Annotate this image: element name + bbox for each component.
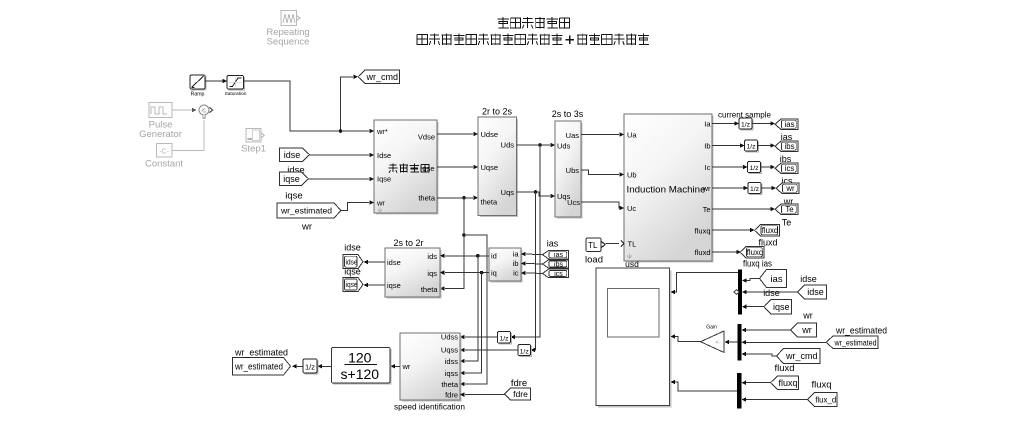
svg-text:Uds: Uds [557, 141, 571, 150]
wire machine Ia to unit delay [712, 123, 735, 125]
svg-text:ias: ias [770, 274, 782, 285]
block Saturation [229, 77, 245, 90]
svg-text:iqse: iqse [346, 280, 358, 289]
svg-text:wr_estimated: wr_estimated [835, 326, 887, 337]
svg-text:Uqse: Uqse [481, 163, 499, 172]
from tag flux_d (mux3) [808, 393, 838, 407]
wire Uqs to 2s-to-3s [517, 192, 551, 196]
svg-text:wr: wr [801, 325, 812, 335]
wire Constant to switch circle [173, 120, 205, 151]
wire theta to 2r-to-2s theta [437, 197, 473, 199]
svg-text:iqse: iqse [283, 174, 300, 184]
unit delay 1/z for wr [750, 184, 762, 194]
from tag iqse [280, 172, 309, 186]
svg-text:1/z: 1/z [746, 144, 756, 151]
from tag fluxq (mux3) [771, 376, 799, 390]
svg-text:flux_d: flux_d [815, 395, 836, 405]
wire transfer fcn to unit delay 1/z c [322, 365, 332, 367]
goto tag ibs [775, 141, 798, 152]
annotation title line1 (CJK) [498, 17, 571, 28]
unit delay 1/z c [305, 361, 318, 374]
block speed identification (mirrored) [402, 335, 461, 401]
svg-text:idse: idse [284, 150, 301, 160]
wire Vdse to Udse [437, 133, 473, 135]
svg-text:Uc: Uc [627, 204, 636, 213]
wire branch to wr_cmd tag [341, 77, 354, 131]
svg-text:Udse: Udse [481, 130, 499, 139]
svg-text:1/z: 1/z [499, 336, 509, 343]
svg-text:Uqs: Uqs [501, 188, 515, 197]
svg-text:iq: iq [491, 268, 497, 277]
wire wr to mux2 [746, 329, 791, 331]
mux 2 (wr wr_estimated wr_cmd) [738, 324, 742, 361]
wire unit delay to goto ics [761, 166, 772, 168]
scope usd (hidden) label [627, 254, 632, 259]
wire Uqs branch down to unit delay 1/z b [534, 192, 537, 350]
svg-text:ibs: ibs [554, 262, 563, 269]
svg-text:iqse: iqse [344, 267, 361, 277]
from tag ibs (mid) [543, 260, 569, 268]
svg-text:Uas: Uas [566, 131, 580, 140]
svg-text:wr: wr [402, 362, 411, 371]
svg-text:Ubs: Ubs [566, 166, 580, 175]
wire unit delay to goto wr_estimated [297, 365, 304, 367]
unit delay 1/z b (Uqss) [520, 346, 532, 356]
svg-text:ics: ics [554, 271, 563, 278]
svg-text:120: 120 [348, 349, 372, 365]
svg-text:Uqss: Uqss [441, 345, 458, 354]
from tag wr_estimated (input wr) [277, 203, 341, 218]
goto tag Te [775, 204, 798, 215]
wire TL to machine [606, 243, 620, 245]
from tag iqse (mux1) [764, 300, 792, 315]
block Step1 (commented out) [246, 129, 261, 143]
block vector control (CJK 4 chars) [376, 122, 438, 214]
unit delay 1/z a (Udss) [499, 333, 511, 344]
junction id branch [476, 254, 480, 258]
svg-text:idse: idse [387, 258, 401, 267]
wire gain to scope input 2 [674, 337, 701, 342]
svg-text:iqs: iqs [427, 269, 437, 278]
wire fdre to speed identification [465, 394, 505, 396]
svg-text:Ib: Ib [704, 141, 710, 150]
svg-text:Generator: Generator [139, 129, 182, 140]
svg-text:ibs: ibs [785, 142, 795, 151]
junction Uqs branch [534, 190, 538, 194]
svg-text:Gain: Gain [706, 325, 717, 331]
svg-text:theta: theta [418, 193, 436, 202]
svg-text:1/z: 1/z [750, 186, 760, 193]
svg-text:wr: wr [702, 184, 711, 193]
wire id branch down to speed identification idss [465, 256, 478, 361]
svg-text:-C-: -C- [159, 149, 169, 156]
block Repeating Sequence (commented out) [281, 11, 297, 26]
svg-text:iqse: iqse [285, 191, 302, 202]
goto tag iqse (lower left) [343, 278, 363, 292]
wire ias to mux1 [747, 279, 760, 281]
svg-text:idse: idse [344, 243, 361, 253]
svg-text:ib: ib [513, 259, 519, 268]
svg-text:wr: wr [785, 184, 795, 193]
from tag TL (load) [586, 238, 601, 252]
wire Uds to 2s-to-3s [517, 144, 551, 146]
svg-text:load: load [585, 255, 603, 266]
block 2s to 3s [557, 123, 582, 218]
svg-text:wr: wr [802, 311, 813, 321]
svg-text:idse: idse [763, 288, 780, 298]
svg-text:1/z: 1/z [520, 348, 530, 355]
svg-text:idse: idse [800, 274, 817, 284]
wire 1/z b to speed identification Uqss [465, 349, 518, 351]
wire unit delay to goto ias [752, 123, 771, 125]
junction Uds branch [538, 143, 542, 147]
svg-text:fluxq ias: fluxq ias [743, 259, 772, 269]
wire machine fluxq to goto fluxd [712, 229, 750, 231]
wire 2s-to-2r idse out to goto idse [368, 261, 385, 263]
svg-text:2s to 3s: 2s to 3s [552, 109, 584, 119]
svg-text:theta: theta [421, 285, 439, 294]
svg-text:ias: ias [547, 239, 559, 249]
svg-text:fluxq: fluxq [812, 380, 832, 391]
goto tag wr_estimated (lower left) [233, 358, 291, 376]
svg-text:wr*: wr* [376, 127, 388, 136]
svg-text:wr: wr [301, 222, 312, 233]
svg-text:Ucs: Ucs [567, 198, 580, 207]
from tag fdre [505, 388, 531, 400]
wire mux1 output to scope input 1 [674, 273, 738, 292]
svg-text:TL: TL [588, 241, 598, 250]
svg-text:ias: ias [554, 252, 563, 259]
svg-text:2r to 2s: 2r to 2s [482, 106, 513, 116]
svg-text:TL: TL [628, 239, 637, 248]
svg-text:1/z: 1/z [749, 165, 759, 172]
from tag ics (mid) [543, 269, 569, 277]
svg-text:Te: Te [703, 205, 711, 214]
wire iqse tag to vector control [309, 178, 370, 180]
from tag idse (mux1) [798, 285, 827, 299]
junction wr_cmd branch [339, 129, 343, 133]
svg-text:wr_cmd: wr_cmd [785, 351, 818, 361]
svg-text:fluxd: fluxd [695, 248, 711, 257]
goto tag wr_cmd [358, 70, 400, 84]
wire theta branch down to 2s-to-2r and speed identification [445, 198, 464, 289]
goto tag ics [775, 163, 798, 174]
svg-text:Saturation: Saturation [225, 91, 247, 97]
svg-text:Constant: Constant [145, 159, 183, 170]
annotation title line2 (CJK) [417, 34, 563, 45]
svg-text:ia: ia [513, 249, 520, 258]
unit delay 1/z for Ib [746, 142, 758, 152]
svg-text:wr_cmd: wr_cmd [365, 72, 398, 82]
svg-text:-K-: -K- [715, 340, 722, 345]
wire unit delay to goto ibs [758, 145, 772, 147]
svg-text:fluxq: fluxq [747, 248, 763, 257]
wire machine Te to goto Te [712, 208, 771, 210]
gray resize arrow of vector control [378, 208, 382, 213]
svg-text:fluxq: fluxq [778, 378, 797, 388]
wire wr_estimated to mux2 [746, 341, 826, 343]
svg-text:ids: ids [427, 252, 437, 261]
svg-text:speed identification: speed identification [394, 402, 465, 412]
svg-text:wr: wr [376, 198, 385, 207]
svg-text:theta: theta [481, 197, 499, 206]
wire speed identification wr to transfer fcn [395, 365, 400, 367]
wire Uds branch down to unit delay 1/z a [515, 145, 540, 337]
svg-text:fdre: fdre [513, 389, 528, 399]
switch circle [199, 105, 209, 115]
svg-text:wr_estimated: wr_estimated [234, 361, 283, 371]
wire Uas to Ua [581, 134, 619, 136]
wire iqse to mux1 [747, 306, 765, 308]
wire flux_d to mux3 [746, 399, 808, 401]
from tag ias (mid) [543, 251, 569, 259]
wire idse tag to vector control [310, 154, 370, 156]
svg-text:Te: Te [782, 218, 792, 228]
wire unit delay to goto wr [761, 187, 772, 189]
svg-text:Uds: Uds [501, 140, 515, 149]
junction iq branch [480, 271, 484, 275]
svg-text:Ub: Ub [627, 170, 637, 179]
scope block [598, 271, 671, 407]
block 3s to 2s (id iq, mirrored) [491, 250, 522, 282]
wire machine fluxd to goto fluxq [712, 251, 737, 253]
goto tag wr [776, 183, 799, 194]
wire machine wr to unit delay [712, 187, 744, 189]
wire machine Ic to unit delay [712, 166, 744, 168]
svg-text:wr_estimated: wr_estimated [234, 348, 288, 359]
mux 3 (fluxq flux_d) [737, 373, 742, 409]
svg-text:id: id [491, 251, 497, 260]
svg-text:wr_estimated: wr_estimated [280, 206, 332, 216]
svg-text:Sequence: Sequence [267, 37, 310, 48]
svg-text:Ramp: Ramp [191, 92, 205, 98]
goto tag ias [775, 119, 798, 130]
wire ics to 3s-to-2s ic [526, 272, 543, 274]
wire ias to 3s-to-2s ia [526, 253, 543, 256]
wire Ramp to Saturation [205, 80, 223, 82]
wire Pulse Generator to switch circle [172, 109, 192, 111]
from tag ias (mux1) [760, 270, 787, 288]
wire wr_estimated tag to vector control wr [341, 203, 369, 211]
svg-text:Ua: Ua [627, 130, 637, 139]
svg-text:iqse: iqse [773, 302, 790, 312]
goto tag idse (lower left) [343, 255, 363, 269]
svg-text:fluxd: fluxd [775, 363, 795, 374]
wire fluxq to mux3 [746, 382, 771, 384]
from tag wr (mux2) [791, 323, 817, 337]
from tag wr_cmd (mux2) [777, 349, 821, 364]
svg-text:Ia: Ia [704, 119, 711, 128]
wire Ubs to Ub [581, 170, 619, 175]
wire 1/z a to speed identification Udss [465, 336, 498, 338]
svg-text:Idse: Idse [377, 151, 391, 160]
svg-text:wr_estimated: wr_estimated [834, 337, 877, 347]
mux 1 (ias idse iqse) [738, 270, 742, 315]
gain block (triangle) [701, 331, 725, 353]
wire mux2 to gain [729, 341, 738, 343]
svg-text:s+120: s+120 [341, 366, 380, 382]
svg-text:ic: ic [513, 268, 519, 277]
svg-text:iqss: iqss [445, 369, 459, 378]
svg-text:fluxd: fluxd [762, 226, 778, 235]
svg-text:fdre: fdre [445, 390, 458, 399]
unit delay 1/z for Ia [741, 120, 753, 130]
junction theta branch [462, 196, 466, 200]
svg-text:2s to 2r: 2s to 2r [393, 238, 423, 248]
goto tag fluxq [740, 247, 764, 259]
wire ibs to 3s-to-2s ib [526, 263, 543, 266]
goto tag fluxd [755, 225, 780, 237]
wire Saturation to wr_cmd and vector control wr* [244, 81, 370, 131]
wire 2s-to-2r iqse out to goto iqse [368, 284, 385, 286]
svg-text:Vdse: Vdse [418, 132, 435, 141]
svg-text:fluxq: fluxq [695, 226, 711, 235]
wire iq out to 2s-to-2r iqs [445, 272, 489, 274]
wire iq branch down to speed identification iqss [465, 273, 482, 373]
block Ramp [192, 77, 206, 90]
from tag wr_estimated (mux2) [826, 336, 878, 349]
svg-text:Udss: Udss [441, 332, 458, 341]
wire machine Ib to unit delay [712, 145, 741, 147]
svg-text:ics: ics [785, 164, 795, 173]
svg-text:fdre: fdre [511, 378, 527, 389]
block 2s to 2r (mirrored) [387, 250, 441, 298]
wire mux3 output to scope input 3 [674, 382, 737, 391]
unit delay 1/z for Ic [749, 163, 761, 173]
wire id out to 2s-to-2r ids [445, 255, 489, 257]
block Pulse Generator (commented out) [149, 103, 172, 118]
wire Vqse to Uqse [437, 166, 473, 168]
block Transfer Fcn 120/(s+120) [333, 349, 391, 384]
svg-text:Iqse: Iqse [377, 174, 391, 183]
svg-text:ias: ias [785, 120, 795, 129]
svg-text:1/z: 1/z [741, 122, 751, 129]
svg-text:idse: idse [807, 287, 824, 297]
svg-text:Te: Te [785, 205, 793, 214]
svg-text:idse: idse [346, 257, 358, 266]
from tag idse [280, 148, 310, 162]
wire idse to mux1 [747, 291, 798, 293]
svg-text:Step1: Step1 [241, 144, 266, 155]
svg-text:1/z: 1/z [305, 362, 315, 371]
svg-text:Induction Machine: Induction Machine [627, 184, 706, 195]
block 2r to 2s [480, 119, 518, 217]
block Constant (commented out) [157, 144, 173, 158]
svg-text:idss: idss [445, 357, 459, 366]
wire wr_cmd to mux2 [746, 354, 777, 356]
svg-text:Ic: Ic [705, 163, 711, 172]
wire Ucs to Uc [581, 202, 620, 208]
block Induction Machine [626, 116, 713, 262]
svg-text:theta: theta [441, 380, 459, 389]
svg-text:iqse: iqse [387, 281, 401, 290]
